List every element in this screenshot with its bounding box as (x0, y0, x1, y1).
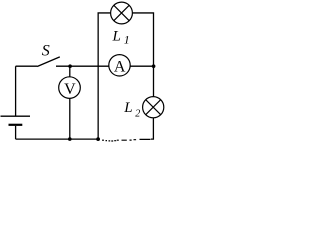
svg-text:1: 1 (124, 33, 130, 47)
svg-text:L: L (123, 100, 132, 116)
svg-text:2: 2 (135, 108, 140, 119)
svg-text:S: S (42, 43, 50, 60)
svg-text:A: A (114, 58, 126, 75)
svg-text:V: V (64, 81, 76, 98)
svg-text:L: L (112, 28, 121, 44)
